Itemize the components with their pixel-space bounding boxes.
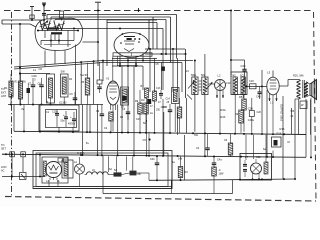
svg-text:SET: SET bbox=[1, 148, 6, 151]
wire bottom right bus bbox=[218, 178, 295, 181]
resistor R27 bbox=[228, 143, 233, 155]
resistor R7 bbox=[145, 88, 149, 98]
chassis dashed border right bbox=[314, 12, 317, 201]
wire speaker leads bbox=[306, 82, 310, 84]
tube V5 plate bar bbox=[50, 172, 58, 174]
svg-text:6A: 6A bbox=[109, 168, 112, 171]
svg-text:5W1: 5W1 bbox=[191, 74, 197, 77]
tube V2 12BA6 envelope bbox=[107, 81, 120, 105]
wire drop x97.6 bbox=[97, 105, 99, 156]
wire bundle to IF1 a bbox=[103, 60, 193, 62]
choke L6 bbox=[87, 172, 109, 175]
wire antenna lead to V1 grid bbox=[97, 2, 99, 66]
svg-text:C6: C6 bbox=[39, 67, 43, 71]
wire x231 from border bbox=[230, 11, 232, 76]
capacitor C1 in antenna lead bbox=[42, 13, 46, 15]
wire B- bus bbox=[14, 131, 306, 134]
power assembly box outer bbox=[33, 151, 172, 189]
tube V2 cathode bbox=[110, 97, 116, 100]
output transformer T3 secondary bbox=[304, 82, 307, 97]
wire V1 cathode bus bbox=[112, 65, 143, 67]
capacitor C8 bbox=[39, 84, 44, 86]
resistor R22 bbox=[178, 167, 183, 178]
tube V1 12BE6 converter envelope bbox=[114, 33, 149, 58]
IF transformer T1 slug arrows bbox=[188, 83, 194, 89]
svg-text:ANT: ANT bbox=[1, 94, 7, 98]
svg-text:C2B: C2B bbox=[248, 108, 253, 111]
svg-text:1607: 1607 bbox=[161, 106, 167, 109]
svg-text:R16: R16 bbox=[277, 131, 282, 135]
tube V2 pin leads bbox=[110, 105, 112, 111]
IF transformer T1 secondary winding bbox=[203, 79, 206, 94]
resistor R14 bbox=[146, 120, 148, 122]
svg-text:C30: C30 bbox=[241, 64, 246, 68]
svg-text:+: + bbox=[70, 115, 72, 119]
capacitor C31 (dark) bbox=[274, 140, 278, 146]
capacitor C23 box bbox=[249, 111, 254, 117]
R17 box bbox=[272, 137, 282, 147]
capacitor C19 bbox=[258, 91, 262, 93]
ballast tabs bbox=[58, 158, 63, 162]
resistor R33 bbox=[239, 110, 244, 123]
wire drop x283 bbox=[282, 96, 284, 179]
wire AVC bundle 3 bbox=[20, 73, 50, 75]
svg-text:L7: L7 bbox=[245, 155, 248, 159]
wire bus to oscillator top 1 bbox=[47, 14, 177, 16]
IF transformer T2 winding box B bbox=[241, 77, 245, 95]
switch lamp bbox=[251, 163, 262, 174]
svg-text:C29a: C29a bbox=[248, 119, 255, 122]
wire gang stator line bbox=[37, 30, 79, 32]
wire detector row bbox=[245, 85, 267, 87]
svg-text:6B: 6B bbox=[138, 173, 141, 176]
wire drop x153 bbox=[152, 17, 154, 49]
svg-text:C26: C26 bbox=[136, 118, 141, 121]
IF transformer T1 winding box B bbox=[202, 77, 208, 95]
svg-text:R1: R1 bbox=[4, 86, 8, 90]
capacitor C7b (dark) bbox=[27, 88, 31, 93]
wire oscillator coupling row 1 bbox=[145, 48, 185, 50]
tube V1 plate bbox=[124, 36, 135, 38]
output transformer T3 primary bbox=[297, 80, 300, 100]
tube V2 plate bbox=[110, 82, 117, 84]
antenna ANT1 bbox=[43, 3, 45, 21]
AVC filter box inner bbox=[46, 110, 77, 128]
output transformer T3 core bbox=[302, 80, 304, 98]
resistor R12 bbox=[109, 112, 114, 121]
capacitor C12 (dark) bbox=[161, 67, 165, 71]
variable capacitor C4b (gang section 2) bbox=[54, 21, 64, 31]
svg-text:C9: C9 bbox=[143, 138, 147, 142]
wire V2 grid lead bbox=[102, 60, 104, 82]
wire choke left bbox=[85, 174, 87, 176]
padder capacitor C5 bbox=[48, 27, 59, 29]
svg-text:C4b: C4b bbox=[150, 158, 155, 161]
svg-text:C4B: C4B bbox=[256, 96, 261, 99]
svg-text:V2: V2 bbox=[106, 77, 110, 81]
IF transformer T2 secondary winding bbox=[242, 78, 245, 94]
resistor R3 in box bbox=[47, 74, 55, 103]
capacitor C24 line cap bbox=[10, 152, 15, 157]
resistor R20 box bbox=[62, 160, 73, 178]
chassis dashed border bottom bbox=[5, 197, 316, 202]
IF transformer T2 can bbox=[231, 72, 247, 95]
wire bundle to IF1 b bbox=[103, 62, 182, 64]
wire bus to oscillator top 3 bbox=[55, 19, 166, 21]
wire drop x82.5 bbox=[82, 105, 84, 156]
svg-text:R4b: R4b bbox=[221, 115, 226, 119]
svg-text:C18: C18 bbox=[249, 80, 254, 83]
svg-text:AC: AC bbox=[1, 170, 5, 173]
resistor R2 bbox=[18, 81, 22, 99]
wire gang lower drops bbox=[44, 51, 46, 67]
capacitor C20 bbox=[100, 113, 105, 115]
wire heater rows from V1 bbox=[112, 58, 157, 60]
capacitor C21 bbox=[126, 111, 131, 113]
wire choke to fuse bbox=[108, 174, 113, 176]
wire y193 right up bbox=[232, 180, 234, 194]
wire drop x176.5 bbox=[176, 15, 178, 59]
wire x298 extend bbox=[298, 110, 300, 135]
svg-text:R25, 546: R25, 546 bbox=[293, 74, 304, 78]
wire V4 plate to T3 bbox=[279, 85, 288, 87]
wire V1 pin drop a bbox=[121, 66, 123, 132]
wire R17 leads bbox=[272, 151, 274, 157]
tube V1 socket bbox=[113, 53, 152, 56]
wire drop x166b bbox=[165, 20, 167, 55]
svg-text:L3: L3 bbox=[267, 71, 271, 75]
fuse F1 (dark) bbox=[114, 172, 122, 176]
pilot lamp PL bbox=[75, 164, 85, 174]
wire grid return drop bbox=[19, 24, 21, 105]
wire oscillator coupling row 2 bbox=[145, 53, 185, 55]
wire drop x117.7 bbox=[117, 105, 119, 156]
tube V4 plate bbox=[270, 79, 276, 81]
switch S1 bbox=[20, 173, 27, 180]
wire gang section leads bbox=[44, 31, 46, 39]
svg-text:1M: 1M bbox=[141, 99, 144, 102]
wire gang top bus bbox=[44, 28, 163, 30]
wire C30 feed bbox=[231, 59, 245, 61]
tube V5 pin leads bbox=[48, 180, 50, 187]
padder capacitor C6 bbox=[51, 32, 62, 34]
IF transformer T1 winding box A bbox=[192, 77, 198, 95]
resistor R19 strip bbox=[43, 161, 46, 176]
resistor R11 in box bbox=[172, 88, 180, 104]
capacitor C9 bbox=[73, 97, 78, 99]
wire drop x90 bbox=[89, 105, 91, 132]
node tick on top border bbox=[138, 8, 140, 12]
wire power verticals bbox=[11, 154, 13, 176]
svg-text:11: 11 bbox=[33, 68, 36, 72]
wire AVC bundle 1 bbox=[14, 61, 103, 68]
wire IF verticals bbox=[149, 49, 151, 92]
svg-text:L2: L2 bbox=[218, 74, 221, 78]
resistor R32 bbox=[177, 107, 182, 118]
wire V3 grid bbox=[208, 83, 215, 85]
tube V4 pin leads bbox=[269, 94, 271, 102]
tube V1 pin leads bbox=[119, 57, 121, 67]
IF transformer T2 primary winding bbox=[234, 78, 237, 94]
svg-text:A02: A02 bbox=[256, 155, 261, 159]
wire T3 bottom lead bbox=[298, 99, 300, 110]
wire y193 mid up bbox=[170, 180, 172, 194]
resistor R21 (dark) bbox=[130, 171, 137, 176]
wire y193 bus bbox=[103, 193, 233, 195]
power assembly box inner bbox=[36, 153, 168, 187]
resistor R4 in box bbox=[61, 74, 69, 97]
chassis dashed border left bbox=[11, 12, 13, 196]
tube V3 12AT6 envelope bbox=[215, 80, 226, 91]
wire R21 right bbox=[137, 172, 150, 174]
wire osc pad drop bbox=[142, 66, 144, 90]
wire osc verticals bbox=[80, 62, 82, 105]
wire blob to x98 bbox=[83, 41, 99, 43]
wire drop x116.6 bbox=[116, 156, 118, 172]
wire T1 leads bbox=[194, 61, 196, 79]
svg-text:C13: C13 bbox=[156, 87, 161, 90]
svg-text:24C: 24C bbox=[232, 74, 237, 77]
chassis dashed border top bbox=[4, 10, 313, 12]
wire y193 left up bbox=[102, 156, 104, 194]
antenna ANT2 bbox=[31, 6, 33, 20]
wire drop x108.5 bbox=[108, 156, 110, 172]
resistor R30 bbox=[144, 103, 149, 114]
svg-text:C10: C10 bbox=[226, 82, 231, 85]
resistor R5 bbox=[85, 78, 90, 95]
wire drop x126.3 bbox=[125, 156, 127, 170]
capacitor C32 bbox=[243, 164, 247, 166]
resistor R8 bbox=[242, 99, 247, 110]
capacitor C7 bbox=[31, 84, 36, 86]
wire drop x177.6 bbox=[177, 113, 179, 135]
IF transformer T1 core bbox=[199, 80, 202, 82]
wire feeds to switch box bbox=[245, 135, 247, 160]
svg-text:OUTPUT 50L6: OUTPUT 50L6 bbox=[280, 104, 284, 122]
wire drop x163.8 bbox=[163, 112, 165, 156]
wire switch pins bbox=[252, 173, 254, 179]
capacitor C22 bbox=[168, 109, 173, 111]
svg-text:(C)140: (C)140 bbox=[59, 102, 67, 105]
wire bus to oscillator top 2 bbox=[51, 16, 171, 18]
wire pilot leads bbox=[79, 157, 81, 164]
svg-text:M: M bbox=[288, 140, 290, 144]
tube V4 grid dashes bbox=[270, 82, 277, 84]
wire drop x184.5 bbox=[184, 135, 186, 180]
capacitor C2 bbox=[30, 15, 34, 19]
svg-text:+: + bbox=[63, 113, 65, 117]
wire drop x132 bbox=[133, 104, 135, 156]
tube V5 filament bbox=[49, 165, 59, 170]
wire drop x186.4 bbox=[185, 98, 187, 133]
capacitor C13 bbox=[159, 93, 163, 95]
svg-text:EXT: EXT bbox=[1, 91, 6, 95]
AVC filter box outer bbox=[39, 105, 79, 131]
svg-text:1A: 1A bbox=[74, 161, 77, 164]
svg-text:40/50V: 40/50V bbox=[68, 124, 76, 126]
svg-text:C15a: C15a bbox=[52, 111, 58, 114]
loop antenna + tuning gang outline L1 bbox=[35, 18, 83, 50]
tube V4 50L6 envelope bbox=[267, 77, 279, 95]
IF transformer T1 primary winding bbox=[193, 79, 196, 94]
trimmer capacitor C3 bbox=[43, 20, 45, 26]
svg-text:C4a: C4a bbox=[217, 159, 222, 162]
resistor R24 bbox=[264, 162, 268, 174]
component box above gang bbox=[60, 11, 64, 18]
capacitor C30 bbox=[244, 60, 246, 69]
wire x172 up bbox=[171, 157, 173, 189]
wire drop x132.8 bbox=[132, 156, 134, 170]
wire cluster verticals bbox=[10, 97, 12, 105]
svg-text:10W: 10W bbox=[219, 173, 225, 176]
tube V1 grid dashes bbox=[124, 40, 135, 42]
wire gang bottom link bbox=[41, 40, 74, 42]
wire x267 drop bbox=[266, 90, 268, 157]
capacitor C10 bbox=[97, 80, 102, 84]
wire heater bus bbox=[2, 154, 306, 157]
wire line input top bbox=[5, 153, 7, 155]
tube V5 35Z5 envelope bbox=[46, 162, 62, 178]
wire screen drop x262 bbox=[261, 70, 263, 86]
wire drop x149 bbox=[148, 20, 150, 50]
resistor R9 bbox=[153, 91, 157, 101]
tube V1 shield box bbox=[107, 19, 157, 21]
svg-text:R3A: R3A bbox=[221, 108, 226, 112]
resistor R13 bbox=[138, 103, 143, 114]
electrolytic C15b bbox=[64, 116, 68, 118]
wire antenna bus bbox=[2, 19, 44, 21]
wire V1 pin drop c bbox=[133, 66, 135, 104]
wire AVC top bbox=[13, 105, 15, 132]
IF transformer T2 winding box A bbox=[233, 77, 237, 95]
wire gang frame stub left bbox=[30, 24, 36, 27]
capacitor C18 bbox=[250, 84, 257, 89]
wire y180 left bbox=[149, 179, 218, 182]
speaker SPK bbox=[310, 80, 317, 100]
tube V2 grid dashes bbox=[109, 85, 117, 87]
tube V1 internal bar bbox=[127, 38, 132, 40]
wire V1 pin drop b bbox=[127, 66, 129, 120]
svg-text:C20: C20 bbox=[257, 111, 262, 114]
box bottom double line a bbox=[33, 186, 172, 188]
wire drop x170.5 bbox=[170, 17, 172, 63]
resistor R23 bbox=[212, 167, 217, 176]
svg-text:TO: TO bbox=[1, 87, 5, 91]
variable capacitor C4a (gang section 1) bbox=[40, 21, 50, 31]
wire AVC verticals bbox=[23, 105, 25, 132]
wire T2 bottoms bbox=[234, 95, 236, 134]
svg-text:R15: R15 bbox=[280, 127, 285, 131]
wire cluster bottom bus bbox=[8, 104, 103, 106]
svg-text:50a: 50a bbox=[61, 120, 66, 123]
tube V3 pin leads bbox=[216, 90, 218, 98]
resistor R1 bbox=[9, 81, 13, 97]
capacitor C25 line cap bbox=[21, 152, 26, 157]
wire left drop bbox=[1, 20, 3, 24]
rectifier box bbox=[42, 157, 68, 183]
terminal box W5 bbox=[300, 101, 307, 109]
wire line input bottom bbox=[2, 176, 45, 178]
svg-text:R8: R8 bbox=[239, 95, 243, 99]
tube V3 electrodes bbox=[217, 82, 224, 88]
box bottom double line b bbox=[33, 188, 172, 190]
wire AVC bundle 2 bbox=[14, 63, 103, 70]
wire det cluster bottoms bbox=[146, 98, 148, 156]
switch box bbox=[240, 154, 272, 181]
svg-text:SW: SW bbox=[61, 70, 66, 74]
electrolytic C15a bbox=[55, 113, 59, 115]
electrolytic C15c bbox=[72, 118, 76, 120]
capacitor C11 bypass (dark) bbox=[121, 87, 129, 105]
wire fuse to R21 bbox=[122, 173, 130, 175]
wire x306 drop bbox=[305, 99, 307, 157]
wire IF1 feed vertical bbox=[185, 49, 187, 98]
tube V1 cathode bbox=[124, 49, 134, 52]
wire x291 drop bbox=[291, 108, 293, 134]
wire x310 drop bbox=[310, 100, 312, 135]
